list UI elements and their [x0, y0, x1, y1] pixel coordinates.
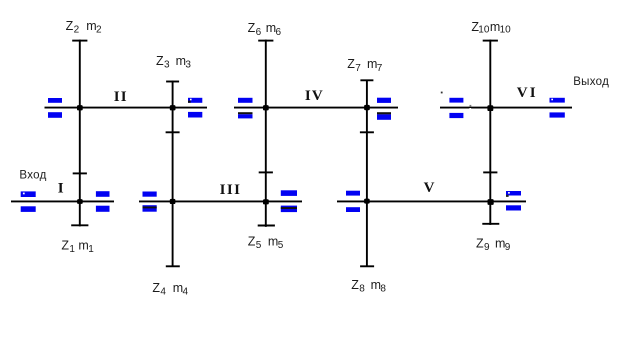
gear Z7 (small, shaft IV) and gear Z8 (big, shaft V) vertical	[360, 80, 374, 267]
svg-text:Z: Z	[66, 19, 74, 33]
svg-text:1: 1	[69, 244, 75, 255]
svg-text:IV: IV	[305, 88, 324, 104]
shaft V	[337, 200, 526, 202]
junction shaft V / Z9	[488, 199, 494, 205]
svg-text:6: 6	[276, 27, 282, 38]
svg-text:9: 9	[505, 242, 511, 253]
junction shaft IV / Z7	[364, 105, 370, 110]
bearing shaft VI left	[449, 98, 463, 118]
bearing shaft II right	[188, 98, 202, 118]
bearing shaft I right	[96, 191, 110, 212]
svg-text:4: 4	[183, 287, 189, 298]
svg-text:Z: Z	[248, 21, 256, 35]
shaft VI	[440, 107, 572, 109]
bearing shaft V left	[346, 191, 360, 212]
bearing shaft V right	[506, 191, 521, 211]
label Z6 m6	[248, 21, 282, 38]
bearing shaft III right	[281, 190, 297, 212]
svg-text:8: 8	[359, 284, 365, 295]
svg-text:Z: Z	[152, 281, 160, 295]
svg-text:Z: Z	[61, 238, 69, 252]
junction shaft II / Z3	[170, 105, 176, 110]
svg-text:6: 6	[256, 27, 262, 38]
gear Z2 (big, shaft II) and gear Z1 (small, shaft I) vertical	[71, 40, 88, 227]
bearing shaft I left	[21, 191, 36, 212]
svg-text:Z: Z	[476, 236, 484, 250]
svg-text:Z: Z	[156, 54, 164, 68]
label Z5 m5	[248, 234, 284, 251]
label Z9 m9	[476, 236, 511, 253]
shaft I	[11, 200, 114, 202]
label Z2 m2	[66, 19, 102, 36]
svg-text:10: 10	[500, 24, 512, 35]
stray dot artifact left of shaft VI	[441, 92, 443, 94]
gear Z6 (big, shaft IV) and gear Z5 (small, shaft III) vertical	[258, 40, 275, 227]
svg-text:5: 5	[256, 240, 262, 251]
bearing shaft IV left	[238, 98, 253, 119]
label Z8 m8	[351, 278, 386, 295]
junction shaft I / Z1	[77, 199, 83, 204]
notch artifact on shaft VI	[469, 108, 471, 109]
svg-text:5: 5	[278, 240, 284, 251]
svg-text:Вход: Вход	[19, 170, 46, 182]
svg-text:III: III	[220, 182, 242, 198]
svg-text:9: 9	[484, 242, 490, 253]
svg-text:Z: Z	[351, 278, 359, 292]
svg-text:Z: Z	[248, 234, 256, 248]
svg-text:I: I	[58, 180, 64, 196]
label Z1 m1	[61, 238, 94, 255]
svg-text:II: II	[114, 89, 128, 105]
svg-text:4: 4	[160, 287, 166, 298]
svg-text:3: 3	[185, 60, 191, 71]
gear Z10 (big, shaft VI) and gear Z9 (small, shaft V) vertical	[482, 40, 499, 225]
shaft IV	[234, 107, 398, 109]
svg-text:10: 10	[478, 24, 490, 35]
shaft III	[139, 200, 302, 202]
svg-text:Z: Z	[347, 57, 355, 71]
label Z10 m10	[471, 20, 511, 36]
gear Z3 (small, shaft II) and gear Z4 (big, shaft III) vertical	[166, 81, 180, 267]
bearing shaft II left	[48, 98, 62, 118]
bearing shaft IV right	[377, 98, 391, 120]
junction shaft II / Z2	[77, 105, 83, 110]
label Z7 m7	[347, 57, 383, 74]
junction shaft V / Z8	[364, 199, 370, 204]
bearing shaft VI right	[550, 98, 565, 118]
svg-text:VI: VI	[517, 85, 538, 101]
svg-text:2: 2	[74, 25, 80, 36]
junction shaft III / Z5	[263, 199, 269, 204]
svg-text:V: V	[424, 180, 435, 196]
svg-text:7: 7	[355, 63, 361, 74]
bearing shaft III left	[143, 192, 157, 212]
svg-text:1: 1	[88, 244, 94, 255]
svg-text:2: 2	[96, 25, 102, 36]
junction shaft III / Z4	[170, 199, 176, 204]
svg-text:Выход: Выход	[573, 76, 609, 88]
label Z4 m4	[152, 281, 188, 298]
svg-text:3: 3	[164, 60, 170, 71]
junction shaft VI / Z10	[487, 105, 493, 111]
junction shaft IV / Z6	[263, 105, 269, 110]
shaft II	[45, 107, 208, 109]
svg-text:8: 8	[380, 284, 386, 295]
svg-text:7: 7	[377, 63, 383, 74]
label Z3 m3	[156, 54, 191, 71]
